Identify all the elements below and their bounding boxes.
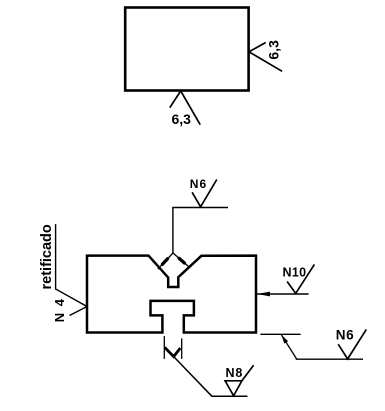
rectangular part outline (top view) — [125, 8, 248, 91]
svg-text:6,3: 6,3 — [172, 111, 192, 127]
label N 4 (rotated) — [52, 297, 67, 322]
roughness tick symbol on bottom edge — [170, 91, 200, 125]
N8 leader with shelf — [174, 357, 248, 397]
svg-text:N6: N6 — [336, 328, 354, 343]
roughness tick symbol N6 (bottom right) — [338, 329, 366, 359]
label retificado (rotated) — [39, 224, 55, 289]
label N10 — [283, 266, 307, 280]
svg-text:N 4: N 4 — [52, 297, 67, 322]
value label 6,3 (right, rotated) — [265, 40, 281, 60]
extension line of bottom surface (right) — [260, 333, 300, 335]
leader branch to left V face — [158, 253, 173, 269]
label N6 (top) — [190, 177, 207, 191]
label N6 (bottom right) — [336, 328, 354, 343]
N6 bottom-right leader with arrow and shelf — [281, 335, 363, 359]
svg-text:6,3: 6,3 — [265, 40, 281, 60]
svg-text:N6: N6 — [190, 177, 207, 191]
N4 callout line on left edge — [56, 224, 87, 315]
open arrowhead pointing into T-slot — [165, 347, 181, 356]
extension line right of T-slot opening — [181, 338, 183, 359]
roughness tick symbol N6 (top shelf) — [192, 180, 217, 207]
svg-text:retificado: retificado — [39, 224, 55, 289]
roughness tick symbol on right edge — [249, 43, 282, 72]
roughness triangle symbol N8 — [225, 365, 254, 396]
N6 top callout leader with shelf — [173, 208, 228, 254]
svg-text:N10: N10 — [283, 266, 307, 280]
value label 6,3 (bottom) — [172, 111, 192, 127]
extension line left of T-slot opening — [163, 336, 165, 359]
V-block part outline (front view) — [87, 256, 256, 333]
N10 callout leader with arrow on right edge — [257, 292, 309, 297]
roughness tick symbol N10 — [287, 264, 314, 293]
label N8 — [226, 366, 244, 380]
leader branch to right V face — [173, 253, 189, 267]
svg-text:N8: N8 — [226, 366, 244, 380]
